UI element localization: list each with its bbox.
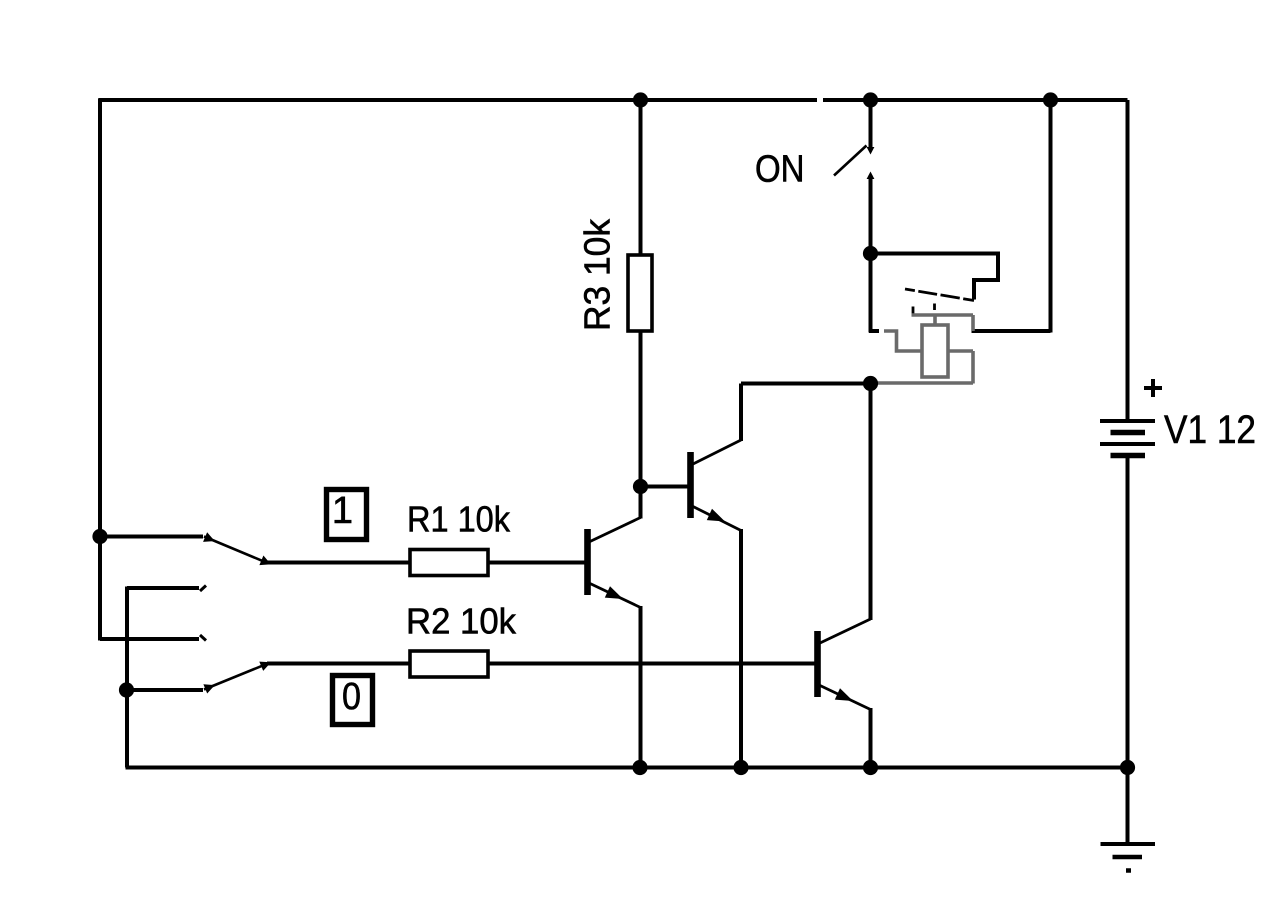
wire relay contact output horizontal: [972, 329, 1051, 333]
resistor R1 body: [410, 550, 488, 576]
wire battery bottom lead: [1126, 458, 1130, 844]
wire Q2 collector vertical: [739, 384, 743, 442]
wire SW2 common to R2: [267, 662, 410, 666]
node junction D collectors: [863, 376, 878, 391]
wire relay contact common hook: [871, 254, 999, 300]
wire ON switch bottom lead: [869, 175, 873, 255]
label box 1: [327, 490, 367, 540]
svg-text:0: 0: [342, 676, 361, 718]
relay RL1 coil top stub: [933, 314, 937, 325]
ground bar 3: [1126, 868, 1131, 873]
wire SW1 common to R1: [267, 561, 410, 565]
wire SW1 lower throw vertical: [125, 587, 129, 768]
wire node A to SW1 upper throw: [100, 535, 203, 539]
svg-text:R3 10k: R3 10k: [577, 218, 618, 331]
wire R1 to Q1 base: [488, 561, 585, 565]
svg-text:R1 10k: R1 10k: [407, 499, 511, 540]
svg-text:1: 1: [332, 490, 353, 532]
switch SW1 blade: [204, 535, 268, 564]
node junction bottom Q1: [632, 760, 647, 775]
wire Q1 emitter vertical: [639, 606, 643, 768]
wire top rail left segment: [99, 98, 818, 102]
wire ON switch top lead: [869, 100, 873, 150]
relay RL1 coil right pin: [948, 349, 973, 353]
node junction E ON bottom: [863, 246, 878, 261]
transistor Q3 base bar: [814, 631, 821, 697]
transistor Q2 emitter arrow: [707, 509, 725, 522]
switch SW2 blade: [204, 663, 268, 691]
transistor Q3 emitter arrow: [835, 688, 853, 701]
node junction top R3: [633, 92, 648, 107]
relay RL1 coil return wire: [876, 381, 973, 385]
relay RL1 fixed contact wire: [912, 313, 974, 317]
switch SW2 open throw tick: [200, 635, 206, 641]
resistor R3 body: [628, 255, 652, 331]
wire Q1 collector vertical: [639, 485, 643, 519]
wire Q2 emitter vertical: [739, 529, 743, 768]
svg-text:R2 10k: R2 10k: [406, 601, 517, 642]
transistor Q1 emitter arrow: [605, 586, 623, 599]
wire relay coil left stub: [869, 329, 879, 333]
wire node B to SW2 lower throw: [127, 688, 203, 692]
relay RL1 coil right pin vertical: [971, 351, 975, 384]
switch ON top arrow: [867, 147, 875, 155]
wire SW1 lower throw horizontal: [127, 586, 199, 590]
battery V1 plate long bottom: [1100, 442, 1155, 446]
switch ON blade: [834, 146, 867, 176]
resistor R2 body: [410, 651, 488, 677]
transistor Q2 collector lead: [693, 440, 741, 464]
wire node E to relay coil area: [869, 254, 873, 333]
battery V1 plus sign: [1144, 379, 1162, 397]
ground bar 1: [1101, 842, 1156, 846]
transistor Q1 collector lead: [590, 518, 641, 542]
transistor Q2 base bar: [687, 452, 694, 518]
node junction top relay output: [1043, 92, 1058, 107]
transistor Q1 base bar: [584, 529, 591, 595]
wire Q3 collector vertical: [869, 384, 873, 621]
transistor Q3 collector lead: [820, 619, 871, 643]
wire Q2 collector to node D: [741, 382, 871, 386]
relay RL1 linkage dash: [933, 304, 936, 311]
svg-text:V1 12: V1 12: [1164, 408, 1256, 452]
wire top rail to R3: [639, 100, 643, 255]
wire bottom rail: [126, 766, 1128, 770]
wire left rail: [98, 99, 102, 641]
ground bar 2: [1113, 855, 1143, 859]
transistor Q3 emitter lead: [820, 686, 871, 710]
label box 0: [333, 676, 373, 725]
wire R2 to Q3 base: [488, 662, 815, 666]
relay RL1 fixed contact wire vertical: [971, 315, 975, 331]
transistor Q1 emitter lead: [590, 584, 641, 608]
wire battery top lead: [1126, 100, 1130, 420]
node junction bottom Q3: [863, 760, 878, 775]
node junction left rail SW1: [92, 529, 107, 544]
wire Q3 emitter vertical: [869, 708, 873, 768]
wire top rail right segment: [823, 98, 1128, 102]
node junction bottom battery: [1120, 760, 1135, 775]
battery V1 plate long top: [1100, 419, 1155, 423]
relay RL1 coil left pin: [884, 331, 922, 351]
wire R3 to node C: [639, 331, 643, 488]
transistor Q2 emitter lead: [693, 507, 741, 531]
wire node C to Q2 base: [641, 485, 688, 489]
node junction bottom Q2: [733, 760, 748, 775]
node junction C R3 bottom: [633, 479, 648, 494]
wire relay contact output vertical: [1049, 100, 1053, 333]
switch ON bottom arrow: [867, 172, 875, 180]
relay RL1 contact blade: [905, 289, 974, 301]
wire left rail to SW2 upper throw: [100, 637, 199, 641]
node junction top ON: [863, 92, 878, 107]
battery V1 plate short top: [1111, 430, 1146, 435]
relay RL1 coil body: [922, 325, 948, 377]
switch SW1 open throw tick: [200, 586, 206, 592]
battery V1 plate short bottom: [1111, 453, 1146, 458]
relay RL1 fixed contact tick: [912, 307, 915, 315]
node junction SW throw B: [119, 682, 134, 697]
svg-text:ON: ON: [755, 149, 805, 191]
